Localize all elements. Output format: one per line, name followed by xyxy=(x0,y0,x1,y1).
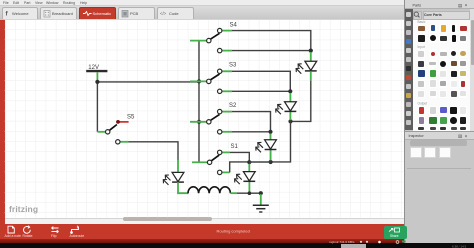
toolbar: rotate xyxy=(24,226,31,234)
node ground junction xyxy=(259,191,263,195)
node 12V junction xyxy=(95,80,99,84)
svg-text:Part: Part xyxy=(24,1,30,5)
battery V1 12V xyxy=(86,65,107,80)
wire S5 red stub (unconnected) xyxy=(119,121,129,123)
node LED4 bottom junction xyxy=(248,191,252,195)
menu bar xyxy=(0,0,404,6)
node bus-S3 junction xyxy=(197,79,201,83)
core parts header xyxy=(423,11,470,20)
wire S1 lower throw xyxy=(230,162,249,173)
svg-text:6:38 / 14:3: 6:38 / 14:3 xyxy=(452,244,467,248)
svg-text:▤: ▤ xyxy=(458,3,463,8)
inductor L1 xyxy=(188,187,237,193)
node bus-S2 junction xyxy=(197,120,201,124)
node LED2 bottom junction xyxy=(288,119,292,123)
svg-text:▤: ▤ xyxy=(458,134,463,139)
bottom black bar xyxy=(0,243,474,248)
toolbar: flip xyxy=(52,227,59,233)
LED D4 xyxy=(235,164,256,193)
switch S2 xyxy=(190,103,237,134)
LED D1 xyxy=(296,52,317,81)
tab pcb xyxy=(122,11,128,18)
svg-text:Input: Input xyxy=(418,45,425,49)
canvas xyxy=(5,20,405,218)
svg-text:Add a note: Add a note xyxy=(5,234,22,238)
svg-text:Routing: Routing xyxy=(63,1,75,5)
tab schematic (selected) xyxy=(83,12,92,16)
svg-text:Edit: Edit xyxy=(13,1,19,5)
switch S4 xyxy=(190,22,238,53)
wire S2 lower throw xyxy=(232,131,271,133)
svg-text:Flip: Flip xyxy=(51,234,57,238)
node LED1 top junction xyxy=(309,49,313,53)
svg-text:Output: Output xyxy=(418,101,428,105)
Inspector title bar xyxy=(405,131,474,140)
toolbar: autoroute xyxy=(71,226,79,234)
svg-text:Help: Help xyxy=(80,1,87,5)
share button xyxy=(384,226,408,239)
wire S3 lower throw xyxy=(232,90,290,92)
wire S3 upper throw xyxy=(232,71,290,90)
parts icons injected here by noscript static divs xyxy=(0,0,474,1)
switch S5 xyxy=(97,114,135,144)
wire LED2 junction down to S1 row xyxy=(271,121,291,161)
LED D2 xyxy=(276,93,297,120)
wire S1 upper throw xyxy=(230,152,250,161)
svg-text:Inspector: Inspector xyxy=(409,134,425,138)
bin tab column xyxy=(405,9,413,130)
svg-text:</>: </> xyxy=(160,11,167,16)
inspector name box xyxy=(410,140,467,146)
Parts title bar xyxy=(405,0,474,9)
svg-text:▾: ▾ xyxy=(465,133,467,138)
switch S1 xyxy=(192,144,239,175)
node LED3 top junction xyxy=(268,130,272,134)
LED D3 xyxy=(256,134,277,161)
svg-text:Basic: Basic xyxy=(418,20,426,24)
search button xyxy=(413,11,422,20)
svg-text:fritzing: fritzing xyxy=(9,204,38,214)
svg-text:Breadboard: Breadboard xyxy=(52,11,73,16)
svg-text:Schematic: Schematic xyxy=(93,11,112,16)
wire bus vertical xyxy=(198,41,200,162)
wire S4 upper throw xyxy=(232,31,311,50)
svg-text:Code: Code xyxy=(169,11,179,16)
svg-text:Core Parts: Core Parts xyxy=(424,13,442,17)
share button icon/text xyxy=(389,229,393,232)
svg-text:View: View xyxy=(35,1,43,5)
svg-text:Routing completed: Routing completed xyxy=(217,229,250,234)
wire LED3 junction to LED4 junction xyxy=(249,161,270,163)
svg-text:File: File xyxy=(3,1,9,5)
dark red status strip xyxy=(0,239,408,244)
tab breadboard xyxy=(44,11,50,18)
svg-text:Share: Share xyxy=(390,234,399,238)
svg-text:Window: Window xyxy=(46,1,59,5)
node LED4 top junction xyxy=(247,160,251,164)
LED D5 xyxy=(163,160,188,194)
wire 12V to bus xyxy=(97,81,199,83)
wire LED1 bottom to LED2 junction xyxy=(292,81,311,122)
swatches xyxy=(410,147,422,158)
wire S5 lower throw to LED5 xyxy=(129,142,179,161)
tab bar xyxy=(0,6,404,20)
svg-text:Rotate: Rotate xyxy=(23,234,33,238)
svg-text:Welcome: Welcome xyxy=(12,11,29,16)
wire S4 lower throw xyxy=(232,50,311,52)
svg-text:Parts: Parts xyxy=(413,3,422,7)
node LED3 bottom junction xyxy=(269,160,273,164)
svg-text:mg/m2 741.0 KB/s: mg/m2 741.0 KB/s xyxy=(329,240,355,244)
switch S3 xyxy=(190,62,237,93)
toolbar: add a note xyxy=(8,226,14,233)
parts list white area xyxy=(413,20,471,132)
svg-text:f: f xyxy=(6,11,9,18)
svg-text:Autoroute: Autoroute xyxy=(70,234,85,238)
parts vertical scrollbar xyxy=(470,9,474,131)
wire S2 upper throw xyxy=(232,112,271,131)
ground xyxy=(253,194,269,212)
node LED2 top junction xyxy=(288,89,292,93)
svg-text:▾: ▾ xyxy=(465,3,467,8)
red toolbar xyxy=(0,224,408,239)
horizontal scrollbar xyxy=(5,218,405,225)
wire inductor to ground node xyxy=(237,192,261,194)
canvas grid xyxy=(5,20,405,218)
svg-text:PCB: PCB xyxy=(130,11,139,16)
left red window strip xyxy=(0,20,5,225)
wire 12V down to S5 xyxy=(96,82,98,132)
